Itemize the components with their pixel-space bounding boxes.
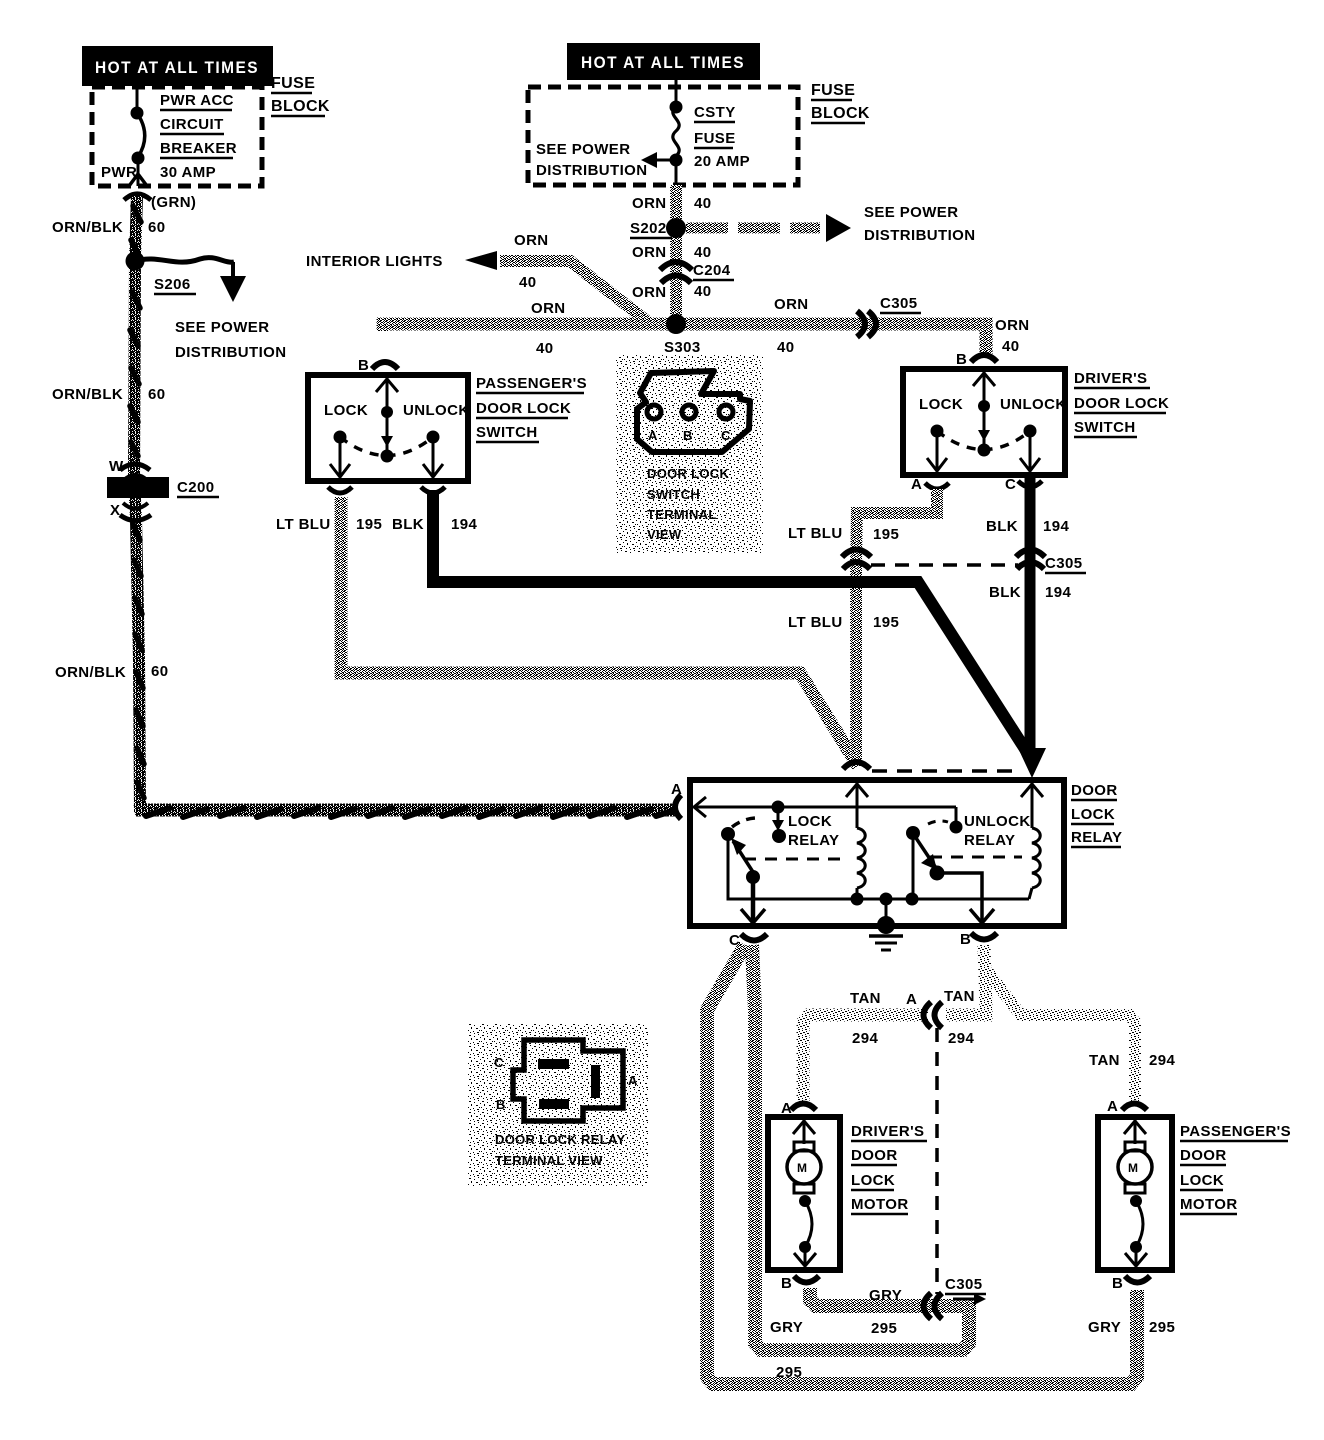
svg-text:ORN: ORN bbox=[632, 195, 667, 212]
svg-text:MOTOR: MOTOR bbox=[1180, 1196, 1238, 1213]
door lock switch terminal view bbox=[615, 355, 763, 553]
svg-text:295: 295 bbox=[776, 1364, 802, 1381]
connector C204 bbox=[660, 262, 734, 283]
relay exit cup C bbox=[729, 932, 767, 949]
svg-text:B: B bbox=[781, 1275, 792, 1292]
svg-text:ORN/BLK: ORN/BLK bbox=[52, 386, 123, 403]
svg-text:B: B bbox=[1112, 1275, 1123, 1292]
svg-text:C200: C200 bbox=[177, 479, 214, 496]
splice S206 bbox=[126, 252, 235, 295]
svg-text:194: 194 bbox=[1045, 584, 1071, 601]
label ORN 40 (above S202) bbox=[632, 195, 712, 212]
driver's door lock motor bbox=[768, 1100, 840, 1292]
svg-text:DISTRIBUTION: DISTRIBUTION bbox=[536, 162, 647, 179]
svg-text:40: 40 bbox=[777, 339, 795, 356]
wire GRY 295 from driver motor B to C305 bbox=[869, 1276, 986, 1337]
svg-text:HOT AT ALL TIMES: HOT AT ALL TIMES bbox=[581, 53, 745, 72]
svg-text:DRIVER'S: DRIVER'S bbox=[851, 1123, 924, 1140]
svg-text:RELAY: RELAY bbox=[1071, 829, 1122, 846]
svg-text:SWITCH: SWITCH bbox=[1074, 419, 1136, 436]
wire ORN 40 vertical from CSTY fuse bbox=[670, 185, 682, 324]
svg-text:LT BLU: LT BLU bbox=[788, 614, 843, 631]
svg-text:C305: C305 bbox=[945, 1276, 982, 1293]
splice S303 bbox=[664, 314, 706, 357]
label GRY 295 (inner) bbox=[770, 1319, 803, 1336]
passenger switch exit cups bbox=[328, 487, 445, 493]
svg-text:BLK: BLK bbox=[392, 516, 424, 533]
svg-text:B: B bbox=[358, 357, 369, 374]
svg-text:DISTRIBUTION: DISTRIBUTION bbox=[864, 227, 975, 244]
label TAN A TAN (at C305) bbox=[850, 988, 975, 1047]
svg-text:UNLOCK: UNLOCK bbox=[964, 813, 1031, 830]
connector C305 on BLK wire bbox=[1016, 550, 1045, 570]
svg-text:LOCK: LOCK bbox=[1071, 806, 1115, 823]
unlock relay switch bbox=[906, 807, 1031, 899]
svg-text:SEE POWER: SEE POWER bbox=[536, 141, 630, 158]
svg-text:40: 40 bbox=[519, 274, 537, 291]
label ORN/BLK 60 (lower) bbox=[55, 663, 169, 681]
svg-text:M: M bbox=[1128, 1161, 1138, 1175]
svg-text:S202: S202 bbox=[630, 220, 667, 237]
svg-text:195: 195 bbox=[356, 516, 382, 533]
svg-text:BLOCK: BLOCK bbox=[271, 98, 330, 115]
label GRY 295 (passenger) bbox=[1088, 1319, 1175, 1336]
svg-text:60: 60 bbox=[151, 663, 169, 680]
svg-text:FUSE: FUSE bbox=[271, 75, 315, 92]
svg-text:X: X bbox=[110, 502, 120, 519]
svg-text:ORN: ORN bbox=[531, 300, 566, 317]
wire LT BLU 195 from driver switch A to relay bbox=[856, 489, 937, 766]
svg-text:DISTRIBUTION: DISTRIBUTION bbox=[175, 344, 286, 361]
svg-text:40: 40 bbox=[694, 244, 712, 261]
wire ORN/BLK horizontal run to relay A bbox=[140, 804, 676, 817]
svg-text:TERMINAL VIEW: TERMINAL VIEW bbox=[495, 1153, 603, 1168]
dashed connector line C305 (vertical) bbox=[935, 1028, 939, 1294]
svg-text:C: C bbox=[1005, 476, 1016, 493]
connector C200 bbox=[107, 458, 219, 521]
fuse block (left) dashed box bbox=[92, 87, 262, 186]
wire ORN/BLK 60 vertical (left) bbox=[130, 196, 144, 812]
wire BLK 194 from passenger switch (thick black) bbox=[433, 490, 1034, 763]
dashed line across relay top bbox=[872, 769, 1012, 773]
svg-text:PWR ACC: PWR ACC bbox=[160, 92, 234, 109]
relay internal ground bus bbox=[728, 834, 1029, 906]
svg-text:FUSE: FUSE bbox=[811, 82, 855, 99]
label ORN/BLK 60 (upper) bbox=[52, 219, 166, 236]
svg-text:GRY: GRY bbox=[770, 1319, 803, 1336]
wire GRY 295 inner run (relay C to driver motor B via C305) bbox=[752, 945, 969, 1350]
power label HOT AT ALL TIMES (left) bbox=[82, 46, 273, 86]
svg-text:B: B bbox=[496, 1097, 506, 1112]
svg-text:BLK: BLK bbox=[986, 518, 1018, 535]
svg-text:ORN: ORN bbox=[632, 284, 667, 301]
dashed connector line C305 bbox=[871, 555, 1086, 573]
relay top entry cup (LT BLU) bbox=[843, 762, 870, 769]
circuit breaker PWR ACC 30 AMP bbox=[129, 79, 237, 186]
label ORN 40 (right of S303) bbox=[774, 296, 809, 356]
svg-text:LT BLU: LT BLU bbox=[788, 525, 843, 542]
svg-text:B: B bbox=[960, 931, 971, 948]
connector cup below fuse block and (GRN) label bbox=[124, 194, 196, 211]
wire branch to interior lights bbox=[306, 232, 648, 322]
relay terminal B stem and arrow bbox=[937, 873, 994, 923]
label ORN 40 (below C204) bbox=[632, 283, 712, 301]
svg-text:DOOR: DOOR bbox=[1180, 1147, 1227, 1164]
svg-text:ORN: ORN bbox=[632, 244, 667, 261]
wire branch from S202 to see power distribution bbox=[686, 204, 975, 244]
svg-text:ORN: ORN bbox=[995, 317, 1030, 334]
svg-text:A: A bbox=[628, 1073, 638, 1088]
svg-text:194: 194 bbox=[451, 516, 477, 533]
svg-text:294: 294 bbox=[852, 1030, 878, 1047]
svg-text:UNLOCK: UNLOCK bbox=[1000, 396, 1067, 413]
svg-text:40: 40 bbox=[536, 340, 554, 357]
svg-text:LOCK: LOCK bbox=[324, 402, 368, 419]
wire ORN 40 main horizontal bus bbox=[383, 324, 986, 356]
label ORN 40 (left of S303) bbox=[531, 300, 566, 357]
svg-text:PWR: PWR bbox=[101, 164, 137, 181]
svg-text:A: A bbox=[906, 991, 917, 1008]
svg-text:SWITCH: SWITCH bbox=[476, 424, 538, 441]
label PASSENGER'S DOOR LOCK MOTOR bbox=[1180, 1123, 1291, 1214]
svg-text:GRY: GRY bbox=[869, 1287, 902, 1304]
svg-text:195: 195 bbox=[873, 614, 899, 631]
arrow see power distribution (left) bbox=[175, 262, 286, 361]
wire GRY 295 outer run (relay C to passenger motor B) bbox=[707, 945, 1137, 1384]
label LT BLU 195 (driver lower) bbox=[788, 614, 899, 631]
svg-text:A: A bbox=[648, 428, 658, 443]
svg-text:S206: S206 bbox=[154, 276, 191, 293]
svg-text:LT BLU: LT BLU bbox=[276, 516, 331, 533]
svg-text:C204: C204 bbox=[693, 262, 731, 279]
svg-text:SWITCH: SWITCH bbox=[647, 487, 700, 502]
svg-text:ORN/BLK: ORN/BLK bbox=[55, 664, 126, 681]
label TAN 294 (passenger side) bbox=[1089, 1052, 1175, 1069]
label DRIVER'S DOOR LOCK SWITCH bbox=[1074, 370, 1169, 437]
svg-text:DOOR: DOOR bbox=[1071, 782, 1118, 799]
door lock relay terminal view bbox=[468, 1024, 648, 1186]
svg-text:LOCK: LOCK bbox=[788, 813, 832, 830]
label LT BLU 195 / BLK 194 (passenger) bbox=[276, 516, 477, 533]
wire BLK 194 from driver switch C (thick black) bbox=[1025, 477, 1036, 762]
passenger's door lock switch bbox=[308, 357, 470, 481]
label LT BLU 195 (driver upper) bbox=[788, 525, 899, 543]
svg-text:40: 40 bbox=[1002, 338, 1020, 355]
svg-text:SEE POWER: SEE POWER bbox=[175, 319, 269, 336]
connector C305 (on ORN bus) bbox=[857, 295, 921, 337]
wire TAN 294 from relay B bbox=[803, 945, 1135, 1105]
terminal PWR label bbox=[101, 164, 137, 181]
svg-text:C: C bbox=[494, 1055, 504, 1070]
svg-text:TAN: TAN bbox=[850, 990, 881, 1007]
svg-text:TAN: TAN bbox=[1089, 1052, 1120, 1069]
svg-text:DRIVER'S: DRIVER'S bbox=[1074, 370, 1147, 387]
svg-text:294: 294 bbox=[1149, 1052, 1175, 1069]
svg-text:TAN: TAN bbox=[944, 988, 975, 1005]
door lock relay box bbox=[690, 780, 1064, 926]
svg-text:TERMINAL: TERMINAL bbox=[647, 507, 717, 522]
driver switch exit cups A and C bbox=[911, 476, 1042, 493]
svg-text:ORN/BLK: ORN/BLK bbox=[52, 219, 123, 236]
ground (relay) bbox=[869, 899, 903, 950]
fuse block (middle) dashed box bbox=[528, 87, 798, 185]
label ORN 40 (above C204) bbox=[632, 244, 712, 261]
svg-text:VIEW: VIEW bbox=[647, 527, 682, 542]
svg-text:LOCK: LOCK bbox=[1180, 1172, 1224, 1189]
svg-text:ORN: ORN bbox=[774, 296, 809, 313]
label FUSE BLOCK (middle) bbox=[811, 82, 870, 123]
connector C305 on TAN wire bbox=[924, 1002, 943, 1028]
svg-text:195: 195 bbox=[873, 526, 899, 543]
connector C305 on LT BLU wire bbox=[842, 550, 871, 570]
svg-text:20 AMP: 20 AMP bbox=[694, 153, 750, 170]
splice S202 bbox=[630, 218, 686, 238]
svg-text:CSTY: CSTY bbox=[694, 104, 736, 121]
svg-text:FUSE: FUSE bbox=[694, 130, 736, 147]
svg-text:MOTOR: MOTOR bbox=[851, 1196, 909, 1213]
svg-text:C305: C305 bbox=[1045, 555, 1082, 572]
wire LT BLU 195 from passenger switch to relay bbox=[341, 497, 858, 766]
svg-text:BLK: BLK bbox=[989, 584, 1021, 601]
relay top entry arrow (BLK) bbox=[1018, 748, 1046, 778]
svg-text:RELAY: RELAY bbox=[788, 832, 839, 849]
relay terminal C stem and arrow bbox=[741, 877, 765, 923]
svg-text:DOOR LOCK: DOOR LOCK bbox=[476, 400, 571, 417]
label ORN 40 (right end) bbox=[995, 317, 1030, 355]
svg-text:PASSENGER'S: PASSENGER'S bbox=[1180, 1123, 1291, 1140]
svg-text:30 AMP: 30 AMP bbox=[160, 164, 216, 181]
svg-text:295: 295 bbox=[871, 1320, 897, 1337]
label BLK 194 (lower) bbox=[989, 584, 1071, 601]
svg-text:BLOCK: BLOCK bbox=[811, 105, 870, 122]
arrow to SEE POWER DISTRIBUTION (inside middle fuse block) bbox=[536, 141, 676, 179]
svg-text:UNLOCK: UNLOCK bbox=[403, 402, 470, 419]
label FUSE BLOCK (left) bbox=[271, 75, 330, 116]
svg-text:S303: S303 bbox=[664, 339, 701, 356]
svg-text:DOOR LOCK: DOOR LOCK bbox=[1074, 395, 1169, 412]
driver's door lock switch bbox=[903, 351, 1067, 475]
lock relay coil bbox=[744, 783, 868, 899]
svg-text:60: 60 bbox=[148, 386, 166, 403]
svg-text:INTERIOR LIGHTS: INTERIOR LIGHTS bbox=[306, 253, 443, 270]
relay exit cup B bbox=[960, 931, 997, 948]
svg-text:C: C bbox=[721, 428, 731, 443]
svg-text:(GRN): (GRN) bbox=[151, 194, 196, 211]
svg-text:W: W bbox=[109, 458, 124, 475]
svg-text:RELAY: RELAY bbox=[964, 832, 1015, 849]
svg-text:60: 60 bbox=[148, 219, 166, 236]
svg-text:B: B bbox=[956, 351, 967, 368]
svg-text:C305: C305 bbox=[880, 295, 917, 312]
svg-text:CIRCUIT: CIRCUIT bbox=[160, 116, 224, 133]
svg-text:LOCK: LOCK bbox=[851, 1172, 895, 1189]
svg-text:HOT AT ALL TIMES: HOT AT ALL TIMES bbox=[95, 58, 259, 77]
relay terminal A (left) bbox=[671, 781, 682, 819]
label PASSENGER'S DOOR LOCK SWITCH bbox=[476, 375, 587, 442]
svg-text:GRY: GRY bbox=[1088, 1319, 1121, 1336]
svg-text:BREAKER: BREAKER bbox=[160, 140, 237, 157]
svg-text:294: 294 bbox=[948, 1030, 974, 1047]
svg-text:295: 295 bbox=[1149, 1319, 1175, 1336]
svg-text:B: B bbox=[683, 428, 693, 443]
lock relay switch bbox=[721, 801, 839, 885]
svg-text:LOCK: LOCK bbox=[919, 396, 963, 413]
svg-text:194: 194 bbox=[1043, 518, 1069, 535]
label DRIVER'S DOOR LOCK MOTOR bbox=[851, 1123, 927, 1214]
svg-text:40: 40 bbox=[694, 195, 712, 212]
svg-text:DOOR LOCK: DOOR LOCK bbox=[647, 466, 729, 481]
svg-text:M: M bbox=[797, 1161, 807, 1175]
power label HOT AT ALL TIMES (middle) bbox=[567, 43, 760, 80]
svg-text:40: 40 bbox=[694, 283, 712, 300]
svg-text:DOOR LOCK RELAY: DOOR LOCK RELAY bbox=[495, 1132, 625, 1147]
svg-text:A: A bbox=[911, 476, 922, 493]
fuse CSTY 20 AMP bbox=[670, 80, 751, 185]
relay internal: A feed line bbox=[694, 797, 956, 817]
label 295 (outer bottom) bbox=[776, 1364, 802, 1381]
label BLK 194 (upper) bbox=[986, 518, 1069, 535]
svg-text:A: A bbox=[1107, 1098, 1118, 1115]
svg-text:DOOR: DOOR bbox=[851, 1147, 898, 1164]
svg-text:ORN: ORN bbox=[514, 232, 549, 249]
label ORN/BLK 60 (middle) bbox=[52, 386, 166, 403]
svg-text:PASSENGER'S: PASSENGER'S bbox=[476, 375, 587, 392]
svg-text:SEE POWER: SEE POWER bbox=[864, 204, 958, 221]
label DOOR LOCK RELAY bbox=[1071, 782, 1122, 847]
passenger's door lock motor bbox=[1098, 1098, 1172, 1292]
unlock relay coil bbox=[930, 783, 1043, 899]
